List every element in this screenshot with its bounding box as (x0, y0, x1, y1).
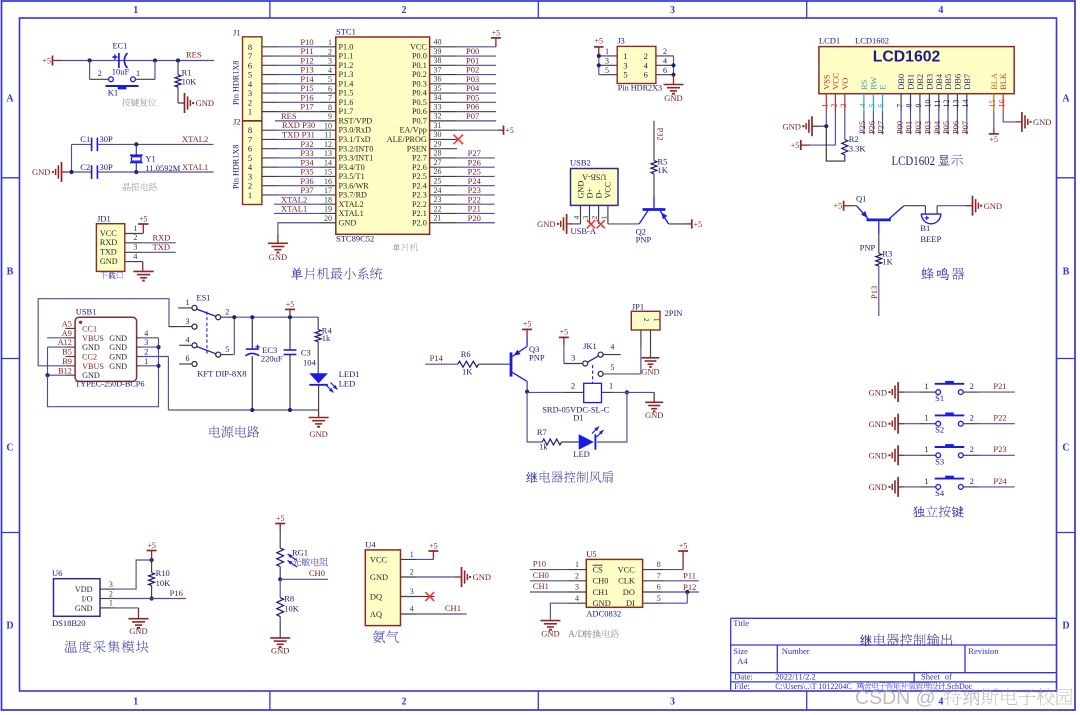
node junction XTAL2 (134, 142, 138, 146)
connector JP1 2PIN (631, 311, 660, 330)
svg-text:4: 4 (610, 343, 614, 352)
pin 4 J3 right (656, 64, 674, 66)
svg-text:D1: D1 (573, 413, 583, 423)
svg-text:1: 1 (924, 444, 928, 454)
wire P10 (530, 569, 568, 571)
svg-text:4: 4 (133, 252, 137, 261)
pin 3 P1.2 (320, 64, 336, 66)
svg-text:P3.2/INT0: P3.2/INT0 (339, 144, 374, 153)
wire BLK to gnd (1003, 112, 1015, 122)
svg-text:1: 1 (248, 107, 252, 117)
svg-text:9: 9 (328, 112, 332, 121)
wire J1-3 to P1.5 (262, 92, 278, 94)
relay JK1 coil SRD-05VDC-SL-C (584, 383, 602, 402)
svg-text:15: 15 (988, 100, 997, 108)
label 氨气 (373, 630, 399, 642)
svg-text:P05: P05 (942, 121, 951, 134)
svg-text:3: 3 (575, 583, 579, 592)
svg-text:15: 15 (324, 168, 332, 177)
svg-text:USB2: USB2 (570, 158, 591, 168)
label 按键复位 (122, 98, 156, 107)
junction DO/DI (685, 590, 689, 594)
svg-text:2: 2 (144, 348, 148, 357)
svg-text:5: 5 (605, 66, 609, 75)
svg-text:16: 16 (997, 100, 1006, 108)
svg-text:R10: R10 (156, 568, 170, 578)
pin B5 USB1 (65, 356, 75, 358)
svg-text:P1.3: P1.3 (339, 70, 354, 79)
wire P13 (878, 266, 880, 316)
svg-text:P0.4: P0.4 (412, 89, 427, 98)
svg-text:I/O: I/O (82, 594, 93, 603)
svg-text:EA/Vpp: EA/Vpp (400, 126, 427, 135)
svg-text:P1.5: P1.5 (339, 89, 354, 98)
overline CS (593, 564, 603, 566)
junction B12 (45, 373, 49, 377)
wire P25 (457, 175, 495, 177)
svg-text:BLA: BLA (990, 73, 999, 90)
svg-text:RW: RW (869, 77, 878, 90)
label 蜂鸣器 (921, 267, 964, 280)
svg-text:P3.3/INT1: P3.3/INT1 (339, 154, 374, 163)
svg-text:22: 22 (434, 204, 442, 213)
ground GND (LCD right) (1015, 121, 1022, 123)
resistor R1 10K (177, 61, 179, 75)
wire J2-7 (262, 138, 278, 140)
crystal Y1 11.0592M (135, 144, 137, 155)
wire LCD pin7 (900, 112, 902, 135)
wire buzzer to gnd (937, 205, 966, 207)
svg-text:1: 1 (133, 5, 138, 16)
svg-text:1: 1 (609, 381, 613, 391)
pin 13 P3.3/INT1 (320, 157, 336, 159)
svg-text:+5: +5 (42, 56, 51, 65)
svg-text:USB1: USB1 (76, 306, 97, 316)
lever JK1 (588, 356, 599, 362)
wire B9 loop to ES1-3 (38, 299, 178, 366)
svg-text:KFT DIP-8X8: KFT DIP-8X8 (197, 368, 246, 378)
no-connect X pin30 (454, 135, 464, 145)
svg-text:3: 3 (144, 338, 148, 347)
pin 24 P2.3 (430, 194, 458, 196)
wire CH0 (U5) (530, 580, 568, 582)
svg-text:33: 33 (434, 102, 442, 111)
wire J2-8 (262, 129, 278, 131)
svg-text:12: 12 (942, 100, 951, 108)
svg-text:LCD1602: LCD1602 (855, 35, 889, 45)
svg-text:GND: GND (473, 572, 491, 582)
svg-text:JP1: JP1 (632, 302, 644, 312)
svg-text:XTAL2: XTAL2 (339, 200, 364, 209)
svg-text:5: 5 (225, 345, 229, 354)
pin 39 P0.0 (430, 55, 458, 57)
label 继电器控制风扇 (526, 471, 613, 483)
pin 29 PSEN (430, 148, 458, 150)
svg-text:5: 5 (328, 75, 332, 84)
wire VCC to +5 (834, 112, 836, 146)
svg-text:B9: B9 (62, 357, 72, 366)
svg-text:28: 28 (434, 149, 442, 158)
svg-text:VO: VO (841, 78, 850, 90)
wire S3 to P23 (963, 454, 979, 456)
pin B9 USB1 (65, 365, 75, 367)
svg-text:3: 3 (839, 104, 848, 108)
svg-text:RST/VPD: RST/VPD (339, 116, 373, 125)
svg-text:5: 5 (868, 104, 877, 108)
svg-text:1: 1 (924, 413, 928, 423)
wire to relay coil (527, 391, 564, 393)
svg-text:+5: +5 (834, 202, 843, 211)
svg-text:EC1: EC1 (112, 41, 127, 51)
svg-text:P3.4/T0: P3.4/T0 (339, 163, 365, 172)
svg-text:TXD: TXD (153, 242, 170, 252)
power +5 (LCD) (800, 140, 802, 150)
svg-text:GND: GND (32, 167, 50, 177)
wire J1-6 to P1.2 (262, 64, 278, 66)
junction bottom C3 (288, 408, 292, 412)
ground GND (U6) (138, 608, 140, 619)
svg-text:S3: S3 (935, 456, 944, 466)
svg-text:1: 1 (924, 381, 928, 391)
svg-text:P0.0: P0.0 (412, 52, 427, 61)
power +5 (U5) (682, 551, 684, 570)
wire relay pin1 to gnd (613, 391, 654, 393)
svg-text:1K: 1K (658, 165, 669, 175)
svg-text:RG1: RG1 (292, 548, 308, 558)
wire TXD (143, 251, 176, 253)
pin 15 P3.5/T1 (320, 175, 336, 177)
pin 2 USB1 GND (137, 356, 141, 358)
svg-text:ALE/PROG: ALE/PROG (387, 135, 427, 144)
svg-text:P2.7: P2.7 (412, 154, 427, 163)
svg-text:21: 21 (434, 214, 442, 223)
svg-text:P0.5: P0.5 (412, 98, 427, 107)
wire DI tie (663, 602, 687, 604)
svg-text:A5: A5 (62, 320, 72, 329)
ground GND (J3) (673, 75, 675, 85)
svg-text:Pin HDR2X3: Pin HDR2X3 (618, 84, 662, 93)
svg-text:8: 8 (657, 560, 661, 569)
svg-text:3: 3 (328, 57, 332, 66)
svg-text:29: 29 (434, 139, 442, 148)
svg-text:104: 104 (303, 358, 317, 368)
svg-text:5: 5 (610, 363, 614, 372)
wire +5 rail (233, 316, 319, 318)
svg-text:DB0: DB0 (897, 74, 906, 90)
pin 35 P0.4 (430, 92, 458, 94)
ground GND (U5) (549, 619, 551, 621)
ground GND (U4) (455, 576, 462, 578)
svg-text:XTAL2: XTAL2 (182, 134, 208, 144)
wire LCD pin14 (966, 112, 968, 135)
wire XTAL1 to pin19 (274, 212, 320, 214)
wire J2-6 (262, 148, 278, 150)
svg-text:P13: P13 (869, 286, 879, 299)
svg-text:Size: Size (733, 646, 748, 656)
svg-text:+5: +5 (286, 300, 295, 309)
svg-text:18: 18 (324, 195, 332, 204)
svg-text:1: 1 (410, 550, 414, 559)
wire ES1-5 up to rail (233, 354, 235, 356)
svg-text:4: 4 (575, 594, 579, 603)
svg-text:GND: GND (537, 219, 555, 229)
svg-text:TXD: TXD (100, 248, 117, 257)
pin 22 P2.1 (430, 212, 458, 214)
pin 5 J3 left (599, 74, 617, 76)
wire JK1-4 (603, 354, 621, 356)
svg-text:VBUS: VBUS (82, 362, 104, 371)
svg-text:.SchDoc: .SchDoc (945, 682, 973, 691)
pin JP1-1 (650, 330, 652, 354)
wire C2 to XTAL1 (97, 171, 213, 173)
svg-text:P14: P14 (430, 353, 444, 363)
pin 28 P2.7 (430, 157, 458, 159)
label 独立按键 (913, 506, 964, 518)
svg-text:GND: GND (82, 343, 100, 352)
svg-text:LED: LED (339, 379, 356, 389)
svg-text:7: 7 (328, 94, 332, 103)
wire +5 to Q1 (852, 205, 857, 207)
svg-text:38: 38 (434, 56, 442, 65)
svg-text:35: 35 (434, 84, 442, 93)
wire P26 (457, 166, 495, 168)
svg-text:C: C (6, 443, 13, 454)
pin 1 USB2 (607, 205, 609, 224)
pushbutton S4 (936, 485, 941, 490)
wire RG1 to node (279, 567, 281, 580)
svg-text:P3.1/TxD: P3.1/TxD (339, 135, 371, 144)
pin 2 P1.1 (320, 55, 336, 57)
power +5 (BLA) (993, 128, 995, 134)
wire EA pin31 to +5 (457, 129, 498, 131)
svg-text:C:\Users\..\T 1012204C: C:\Users\..\T 1012204C (775, 682, 852, 691)
svg-text:A: A (1062, 94, 1070, 105)
resistor R8 10K (279, 579, 281, 597)
pin 37 P0.2 (430, 74, 458, 76)
wire U4 VCC (417, 558, 434, 560)
wire P22 (457, 203, 495, 205)
pin 31 EA/Vpp (430, 129, 458, 131)
svg-text:RES: RES (186, 50, 202, 60)
svg-text:BEEP: BEEP (920, 234, 941, 244)
wire U5 gnd (550, 603, 568, 620)
capacitor EC3 220uF (251, 317, 253, 349)
power +5 (Q2) (691, 219, 693, 228)
svg-text:A12: A12 (58, 338, 72, 347)
connector J3 Pin HDR2X3 (617, 46, 656, 83)
pin 7 P1.6 (320, 101, 336, 103)
svg-text:2: 2 (109, 589, 113, 598)
wire P07 (457, 120, 496, 122)
svg-text:DB6: DB6 (953, 74, 962, 90)
wire J1-8 to P1.0 (262, 46, 278, 48)
svg-text:C1: C1 (80, 134, 90, 144)
ground GND (power) (318, 410, 320, 418)
svg-text:P17: P17 (300, 102, 313, 112)
svg-text:2: 2 (402, 697, 407, 708)
connector USB1 TYPEC-250D-BCP6 (75, 317, 137, 381)
svg-text:1: 1 (924, 476, 928, 486)
svg-text:11: 11 (324, 131, 332, 140)
ground GND (JP1) (650, 354, 652, 358)
svg-text:P2.3: P2.3 (412, 191, 427, 200)
svg-text:C3: C3 (301, 348, 311, 358)
wire U4 DQ (417, 596, 435, 598)
svg-text:+5: +5 (505, 126, 514, 135)
pin 8 U5 VCC (643, 569, 663, 571)
svg-text:1: 1 (652, 318, 659, 321)
wire J1-1 to P1.7 (262, 111, 278, 113)
wire S2 to P22 (963, 423, 979, 425)
svg-text:4: 4 (858, 104, 867, 108)
svg-text:P02: P02 (914, 121, 923, 134)
svg-text:220uF: 220uF (261, 354, 283, 364)
pin 3 J3 left (599, 64, 617, 66)
svg-text:CS: CS (593, 566, 604, 575)
svg-text:DB3: DB3 (925, 74, 934, 90)
svg-text:TYPEC-250D-BCP6: TYPEC-250D-BCP6 (75, 379, 144, 388)
svg-text:VCC: VCC (410, 42, 427, 51)
svg-text:J2: J2 (233, 117, 241, 127)
svg-text:10K: 10K (284, 604, 300, 614)
svg-text:34: 34 (434, 93, 442, 102)
svg-text:6: 6 (186, 354, 190, 363)
svg-text:STC89C52: STC89C52 (336, 234, 374, 244)
svg-text:GND: GND (196, 98, 214, 108)
pin 1 J3 left (599, 55, 617, 57)
svg-text:CH0: CH0 (593, 577, 609, 586)
svg-text:P20: P20 (468, 213, 481, 223)
pin 1 U4 VCC (401, 558, 417, 560)
svg-text:30: 30 (434, 130, 442, 139)
pin A5 USB1 (65, 327, 75, 329)
svg-text:+5: +5 (791, 141, 800, 150)
svg-text:10K: 10K (156, 578, 172, 588)
svg-text:CH0: CH0 (309, 568, 325, 578)
ground GND (USB2) (567, 223, 574, 225)
svg-text:GND: GND (269, 252, 287, 262)
junction Q3/relay (525, 390, 529, 394)
switch ES1 KFT DIP-8X8 (178, 307, 192, 309)
svg-text:D: D (1062, 621, 1069, 632)
wire J2-5 (262, 157, 278, 159)
pin 18 XTAL2 (320, 203, 336, 205)
pushbutton S2 (936, 421, 941, 426)
svg-text:GND: GND (641, 366, 659, 376)
wire J1-7 to P1.1 (262, 55, 278, 57)
svg-text:+5: +5 (276, 514, 285, 523)
svg-text:17: 17 (324, 186, 332, 195)
wire Q2 emitter to +5 (669, 223, 685, 225)
pin 7 U5 CLK (643, 580, 663, 582)
power +5 (U6) (151, 551, 153, 561)
no-connect X D- (597, 220, 605, 228)
wire gnd to S1 (905, 391, 920, 393)
pin 4 USB2 (580, 205, 582, 224)
svg-text:P1.6: P1.6 (339, 98, 354, 107)
pin 2 USB2 (598, 205, 600, 224)
svg-text:J1: J1 (233, 27, 241, 37)
svg-text:VCC: VCC (618, 566, 636, 575)
svg-text:PSEN: PSEN (407, 144, 427, 153)
svg-text:P32: P32 (656, 128, 666, 141)
power +5 (JD1) (142, 224, 144, 234)
pin 16 P3.6/WR (320, 185, 336, 187)
svg-text:P00: P00 (895, 121, 904, 134)
svg-text:U6: U6 (52, 568, 62, 578)
svg-text:DB1: DB1 (907, 74, 916, 90)
svg-text:P03: P03 (924, 121, 933, 134)
svg-text:BLK: BLK (999, 73, 1008, 90)
svg-text:STC1: STC1 (336, 26, 356, 36)
svg-text:LED1: LED1 (339, 369, 360, 379)
svg-text:+5: +5 (990, 135, 999, 144)
svg-text:S2: S2 (935, 425, 944, 435)
svg-text:XTAL1: XTAL1 (339, 209, 364, 218)
svg-text:2: 2 (970, 413, 974, 423)
svg-text:P11: P11 (683, 570, 696, 580)
wire U5 VCC (663, 569, 683, 571)
svg-text:1: 1 (133, 697, 138, 708)
svg-text:P22: P22 (993, 413, 1006, 423)
svg-text:23: 23 (434, 195, 442, 204)
svg-text:VSS: VSS (822, 74, 831, 90)
svg-text:P01: P01 (905, 121, 914, 134)
label 光敏电阻 (292, 558, 328, 567)
svg-text:4: 4 (186, 336, 190, 345)
svg-text:P0.6: P0.6 (412, 107, 427, 116)
capacitor EC1 10uF (118, 53, 120, 68)
svg-text:DI: DI (626, 599, 635, 608)
svg-text:30P: 30P (100, 162, 114, 172)
svg-text:P27: P27 (877, 121, 886, 134)
wire C1 to XTAL2 (97, 143, 213, 145)
svg-text:XTAL1: XTAL1 (182, 162, 208, 172)
title block (731, 617, 1057, 619)
capacitor C2 30P (91, 165, 93, 179)
svg-text:A: A (6, 94, 14, 105)
pin 33 P0.6 (430, 111, 458, 113)
svg-text:10: 10 (324, 121, 332, 130)
svg-text:Y1: Y1 (145, 154, 155, 164)
svg-text:P2.0: P2.0 (412, 218, 427, 227)
svg-text:P1.1: P1.1 (339, 52, 354, 61)
wire gnd to S3 (905, 454, 920, 456)
svg-text:P0.1: P0.1 (412, 61, 427, 70)
wire Q1 base down (878, 221, 880, 234)
svg-text:JD1: JD1 (97, 213, 111, 223)
resistor R6 1K (458, 361, 479, 367)
svg-text:CLK: CLK (618, 577, 635, 586)
transistor Q3 PNP (510, 352, 513, 376)
junction J3-6 (671, 73, 675, 77)
svg-text:6: 6 (877, 104, 886, 108)
junction VSS/R2 (824, 124, 828, 128)
svg-text:Sheet: Sheet (921, 672, 941, 682)
pushbutton S3 (936, 453, 941, 458)
svg-text:GND: GND (109, 362, 127, 371)
svg-text:3.3K: 3.3K (849, 143, 867, 153)
power +5 (reset) (52, 56, 54, 66)
svg-text:P16: P16 (170, 588, 183, 598)
pin 30 ALE/PROG (430, 138, 458, 140)
power +5 (Q1) (843, 201, 845, 211)
IC LCD1 LCD1602 body (819, 47, 1014, 94)
svg-text:LED: LED (573, 449, 590, 459)
svg-text:GND: GND (869, 451, 887, 461)
wire RXD (143, 242, 176, 244)
wire Q1 collector (904, 205, 926, 207)
